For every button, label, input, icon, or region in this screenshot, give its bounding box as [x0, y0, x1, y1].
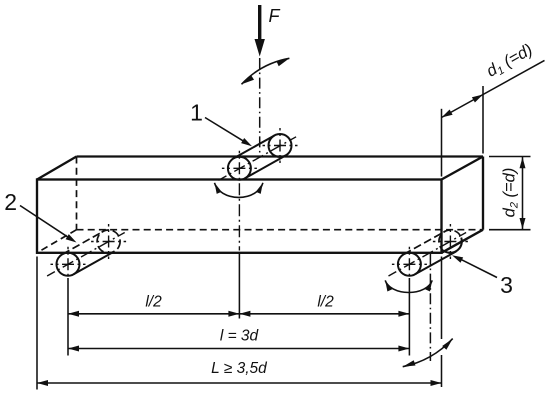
label 1	[190, 99, 203, 125]
roller 2 (left support)	[57, 230, 121, 276]
svg-text:l/2: l/2	[317, 294, 334, 311]
label l/2 right	[317, 294, 334, 311]
roller 1 front circle centre cross	[222, 151, 257, 251]
dimension line l/2 right	[239, 311, 409, 317]
svg-text:1: 1	[190, 99, 203, 125]
svg-text:d2 (=d): d2 (=d)	[501, 168, 521, 218]
label d1 (=d)	[483, 41, 536, 83]
dimension line l/2 left	[68, 311, 239, 317]
label 3 leader	[452, 255, 497, 277]
roller 3 tilt rotation arrow (bottom)	[403, 339, 453, 367]
label 3	[500, 272, 513, 298]
beam back right vertical edge	[482, 157, 484, 230]
svg-text:3: 3	[500, 272, 513, 298]
svg-text:l = 3d: l = 3d	[220, 328, 260, 345]
extension line beam right	[441, 257, 443, 388]
label l = 3d	[220, 328, 260, 345]
roller 3 axis centre line	[389, 233, 467, 277]
beam back top edge	[77, 155, 484, 157]
roller 3 back circle centre cross	[433, 224, 468, 259]
extension line roller 2 centre	[67, 278, 69, 356]
extension line roller 3 centre	[408, 278, 410, 356]
force arrow F	[255, 5, 265, 57]
dimension line L >= 3.5d	[37, 380, 442, 386]
d1 extension line left	[441, 109, 443, 177]
roller 2 axis centre line	[47, 233, 125, 277]
d1 extension line right	[482, 86, 484, 154]
extension line mid-span	[238, 253, 240, 319]
beam top-left edge	[37, 157, 77, 180]
tilt rotation arrow (top)	[242, 58, 290, 84]
label d2 (=d)	[501, 168, 521, 218]
beam top-right edge	[442, 157, 484, 180]
svg-text:L ≥ 3,5d: L ≥ 3,5d	[211, 360, 268, 377]
svg-text:d1 (=d): d1 (=d)	[483, 41, 536, 83]
label l/2 left	[145, 294, 162, 311]
svg-text:F: F	[269, 6, 281, 26]
svg-text:l/2: l/2	[145, 294, 162, 311]
roller 3 rotation arc	[385, 280, 432, 292]
d2 extension line top	[489, 156, 531, 158]
roller 2 back circle centre cross	[91, 224, 126, 259]
roller 1 back circle centre cross	[263, 128, 298, 163]
roller 1 rotation arc	[215, 183, 263, 198]
dimension line l = 3d	[68, 346, 409, 352]
hidden bottom-left edge	[37, 230, 77, 253]
beam front face	[37, 180, 442, 253]
hidden back-left vertical edge	[76, 157, 78, 230]
svg-text:2: 2	[4, 189, 17, 215]
hidden back bottom edge	[77, 229, 484, 231]
roller 1 axis centre line	[219, 137, 297, 181]
beam bottom-right edge	[442, 230, 484, 253]
label 2	[4, 189, 17, 215]
d2 extension line bottom	[489, 229, 531, 231]
roller 3 front circle centre cross	[392, 247, 427, 278]
roller 3 (right support)	[398, 230, 462, 276]
label L >= 3.5d	[211, 360, 268, 377]
label F	[269, 6, 281, 26]
roller 3 mid vertical centre line	[429, 254, 431, 361]
extension line beam left	[36, 257, 38, 390]
main vertical centre line	[259, 58, 261, 158]
d2 dimension line	[520, 157, 526, 230]
roller 1 (loading roller)	[228, 134, 292, 180]
label 2 leader	[20, 206, 77, 243]
roller 2 front circle centre cross	[51, 247, 86, 278]
d1 dimension line	[442, 60, 545, 117]
label 1 leader	[205, 118, 252, 147]
